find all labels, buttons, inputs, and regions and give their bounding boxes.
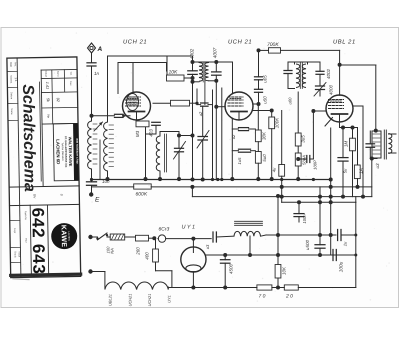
- svg-text:A: A: [97, 46, 103, 53]
- svg-text:1u: 1u: [343, 241, 348, 246]
- svg-text:UBL 21: UBL 21: [333, 39, 356, 46]
- svg-text:u00: u00: [288, 97, 293, 105]
- svg-text:2 0: 2 0: [285, 294, 293, 300]
- svg-text:5u: 5u: [343, 168, 348, 173]
- svg-text:1M: 1M: [344, 141, 349, 147]
- svg-text:Name: Name: [56, 71, 59, 78]
- svg-text:400: 400: [145, 252, 150, 260]
- svg-text:Druck: Druck: [13, 251, 16, 258]
- svg-text:LACHEN 6D: LACHEN 6D: [55, 139, 60, 164]
- svg-text:Datum: Datum: [44, 71, 47, 78]
- svg-text:u2: u2: [231, 134, 236, 139]
- svg-text:u05: u05: [263, 75, 268, 83]
- svg-text:u3: u3: [375, 163, 380, 168]
- svg-text:50uA: 50uA: [302, 155, 307, 165]
- svg-text:4000: 4000: [329, 85, 334, 95]
- svg-text:100n: 100n: [302, 214, 307, 224]
- svg-text:Datum: Datum: [10, 92, 13, 99]
- svg-text:642 643: 642 643: [28, 207, 48, 274]
- svg-text:Bv: Bv: [32, 194, 36, 198]
- svg-text:4007: 4007: [213, 47, 218, 58]
- svg-text:UCH 21: UCH 21: [123, 39, 147, 46]
- svg-text:4500: 4500: [229, 264, 234, 274]
- svg-text:u50: u50: [263, 96, 268, 104]
- svg-text:4u: 4u: [272, 167, 277, 172]
- svg-text:Name: Name: [10, 108, 13, 115]
- svg-text:KAWE: KAWE: [60, 225, 67, 248]
- svg-text:Blatt: Blatt: [9, 62, 12, 67]
- svg-text:4002: 4002: [190, 48, 195, 59]
- svg-text:3u5: 3u5: [301, 135, 306, 143]
- svg-text:UCH21: UCH21: [147, 294, 152, 307]
- svg-text:Prüf: Prüf: [24, 238, 27, 243]
- svg-text:UCH21: UCH21: [128, 294, 133, 307]
- svg-text:BIW Heizkörper u.App.: BIW Heizkörper u.App.: [75, 139, 78, 165]
- svg-text:4002: 4002: [326, 69, 331, 79]
- svg-text:UY1: UY1: [167, 295, 172, 303]
- svg-text:5u0: 5u0: [262, 154, 267, 162]
- svg-text:403: 403: [149, 129, 154, 137]
- svg-text:10K: 10K: [282, 266, 287, 275]
- svg-text:Ye: Ye: [46, 114, 50, 118]
- svg-text:Ind.: Ind.: [69, 72, 72, 76]
- svg-text:Massst.: Massst.: [9, 75, 12, 84]
- svg-text:100P: 100P: [313, 160, 318, 170]
- svg-text:Nach: Nach: [17, 252, 20, 258]
- svg-text:600K: 600K: [136, 192, 148, 198]
- svg-text:u3: u3: [205, 244, 210, 249]
- svg-text:E: E: [95, 197, 100, 204]
- svg-text:Form Nr: Form Nr: [24, 211, 27, 220]
- svg-text:Anz.: Anz.: [14, 62, 17, 67]
- svg-text:1.41: 1.41: [45, 82, 49, 89]
- svg-text:WALTER KAWE: WALTER KAWE: [68, 137, 74, 167]
- svg-text:700K: 700K: [267, 42, 279, 48]
- svg-text:260: 260: [136, 247, 141, 256]
- svg-text:NA: NA: [110, 248, 115, 254]
- svg-text:30K: 30K: [262, 131, 267, 140]
- svg-text:u500: u500: [305, 240, 310, 250]
- svg-text:10K: 10K: [169, 70, 179, 76]
- svg-text:100u: 100u: [339, 261, 344, 272]
- svg-text:Gez.: Gez.: [69, 81, 72, 86]
- svg-text:LACHEN: LACHEN: [67, 231, 70, 241]
- svg-text:M3: M3: [135, 130, 140, 137]
- svg-text:8: 8: [59, 194, 63, 196]
- svg-text:1u5: 1u5: [237, 157, 242, 165]
- svg-text:1:1: 1:1: [14, 77, 18, 82]
- svg-text:U Y 1: U Y 1: [182, 225, 196, 231]
- svg-text:UBL21: UBL21: [108, 294, 113, 306]
- svg-text:1n: 1n: [94, 71, 100, 76]
- svg-text:100K: 100K: [275, 117, 280, 128]
- svg-text:7 0: 7 0: [259, 294, 266, 300]
- svg-text:Gepr: Gepr: [13, 228, 16, 234]
- svg-text:Schaltschema: Schaltschema: [19, 84, 38, 192]
- svg-text:UCH 21: UCH 21: [228, 39, 252, 46]
- svg-text:6Cr3: 6Cr3: [159, 226, 170, 232]
